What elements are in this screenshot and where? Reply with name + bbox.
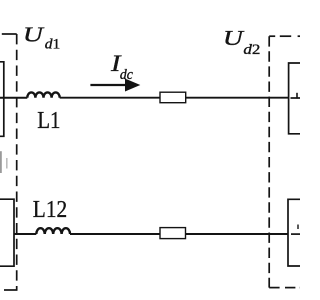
gray cropped label between left boxes [0,151,2,173]
svg-text:L1: L1 [37,108,60,134]
resistor (top DC line) [160,92,186,103]
resistor (bottom DC line) [160,228,186,239]
dashed enclosure U_d2: bottom edge dashes [269,287,279,289]
arrow I_dc [90,84,127,86]
dashed enclosure U_d1: top edge dash [2,33,17,35]
svg-text:L12: L12 [33,197,67,223]
wire: bottom line, L12 to resistor [70,233,160,235]
svg-text:d1: d1 [45,37,61,53]
wire stub inside bottom-right converter [291,233,300,235]
dashed enclosure U_d2: left edge [268,36,270,287]
valve tick inside bottom-right converter [297,225,299,230]
converter box top-right (partially visible) [289,63,308,134]
inductor L12 [36,228,70,234]
svg-text:U: U [23,22,45,46]
dashed enclosure U_d1: right edge [16,34,18,290]
inductor L1 [27,92,59,97]
wire: bottom line, resistor to right converter [186,233,289,235]
svg-text:d2: d2 [243,42,260,58]
converter box bottom-right (partially visible) [288,199,308,266]
valve tick inside top-right converter [296,93,298,99]
wire: bottom line, converter to inductor L12 [14,233,36,235]
converter box top-left (partially visible) [0,62,4,137]
svg-text:dc: dc [120,67,133,83]
wire: top line, L1 to resistor [60,97,160,99]
converter box bottom-left (partially visible) [0,199,14,266]
wire: top line, resistor to right converter [186,97,289,99]
wire: top line, converter to inductor L1 [0,97,27,99]
dashed enclosure U_d2: top edge dashes [269,35,275,37]
wire stub inside top-right converter [291,97,301,99]
dashed enclosure U_d1: bottom edge dash [4,289,18,291]
svg-text:U: U [223,26,245,50]
